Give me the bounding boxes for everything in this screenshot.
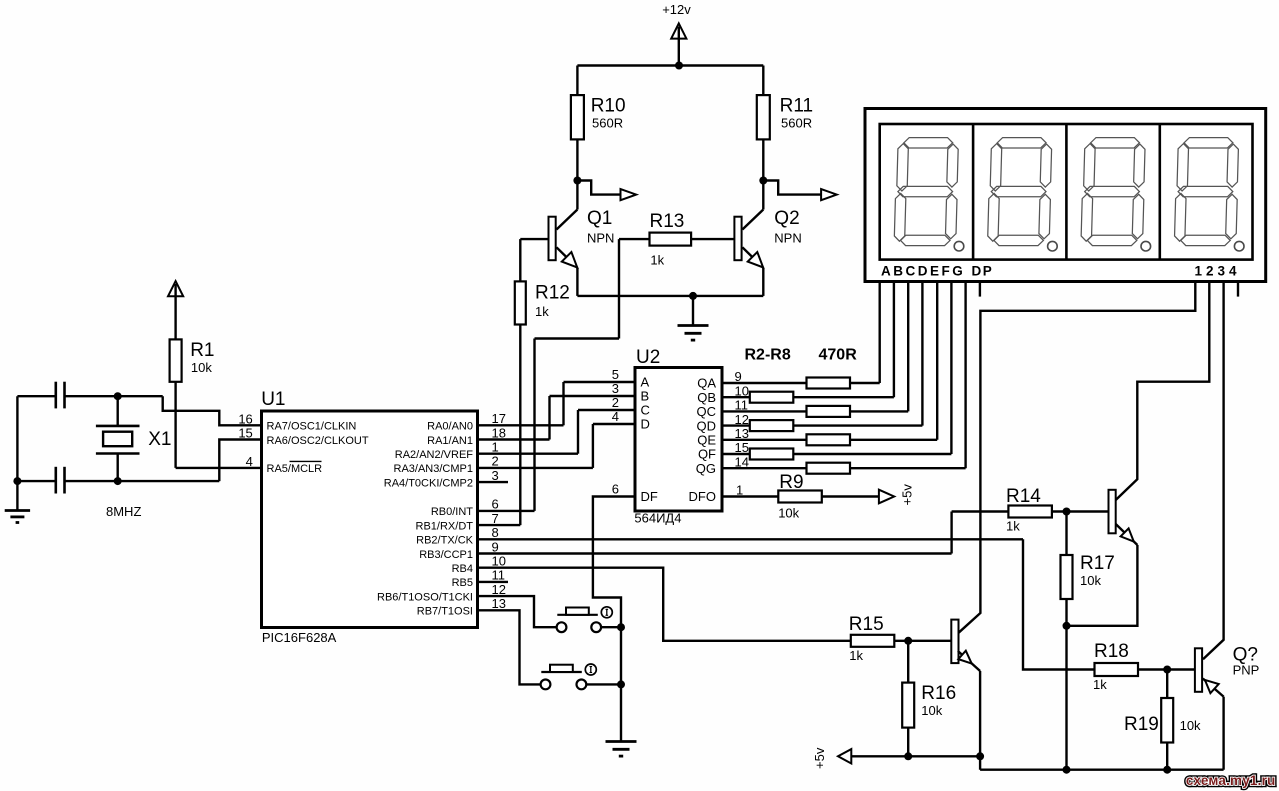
svg-text:12: 12 bbox=[492, 582, 506, 597]
svg-text:1: 1 bbox=[736, 483, 743, 498]
svg-text:8MHZ: 8MHZ bbox=[106, 504, 141, 519]
svg-text:R2-R8: R2-R8 bbox=[745, 347, 791, 364]
svg-text:R14: R14 bbox=[1006, 486, 1041, 507]
svg-text:10k: 10k bbox=[1080, 573, 1101, 588]
svg-text:1k: 1k bbox=[849, 648, 863, 663]
svg-text:NPN: NPN bbox=[774, 231, 801, 246]
svg-text:6: 6 bbox=[492, 497, 499, 512]
svg-text:1k: 1k bbox=[650, 253, 664, 268]
svg-text:15: 15 bbox=[238, 426, 252, 441]
svg-text:9: 9 bbox=[492, 539, 499, 554]
svg-text:4: 4 bbox=[246, 454, 253, 469]
svg-text:R17: R17 bbox=[1080, 553, 1115, 574]
svg-text:R9: R9 bbox=[779, 472, 803, 493]
svg-text:QE: QE bbox=[697, 433, 716, 448]
svg-text:3: 3 bbox=[492, 468, 499, 483]
svg-text:11: 11 bbox=[492, 568, 506, 583]
svg-text:RB3/CCP1: RB3/CCP1 bbox=[419, 549, 473, 561]
svg-text:RA0/AN0: RA0/AN0 bbox=[427, 421, 473, 433]
svg-text:U2: U2 bbox=[636, 347, 660, 368]
svg-text:10k: 10k bbox=[921, 703, 942, 718]
svg-text:RB2/TX/CK: RB2/TX/CK bbox=[416, 535, 474, 547]
svg-text:1: 1 bbox=[492, 440, 499, 455]
svg-text:схема.my1.ru: схема.my1.ru bbox=[1186, 773, 1276, 788]
svg-text:ABCDEFG: ABCDEFG bbox=[881, 264, 965, 279]
svg-text:U1: U1 bbox=[261, 389, 285, 410]
svg-text:RA2/AN2/VREF: RA2/AN2/VREF bbox=[395, 449, 474, 461]
svg-text:10: 10 bbox=[492, 554, 506, 569]
svg-text:10k: 10k bbox=[191, 360, 212, 375]
svg-text:RA7/OSC1/CLKIN: RA7/OSC1/CLKIN bbox=[267, 421, 357, 433]
svg-text:18: 18 bbox=[492, 425, 506, 440]
svg-text:R13: R13 bbox=[650, 211, 685, 232]
svg-text:RA1/AN1: RA1/AN1 bbox=[427, 435, 473, 447]
svg-text:+5v: +5v bbox=[812, 747, 827, 769]
svg-text:R10: R10 bbox=[591, 96, 626, 117]
svg-text:1234: 1234 bbox=[1195, 264, 1241, 279]
svg-text:RA4/T0CKI/CMP2: RA4/T0CKI/CMP2 bbox=[384, 477, 473, 489]
svg-text:PNP: PNP bbox=[1233, 662, 1260, 677]
svg-text:QF: QF bbox=[698, 447, 716, 462]
svg-text:DFO: DFO bbox=[689, 489, 716, 504]
svg-text:PIC16F628A: PIC16F628A bbox=[262, 630, 337, 645]
svg-text:QC: QC bbox=[697, 404, 717, 419]
svg-text:7: 7 bbox=[492, 511, 499, 526]
svg-text:X1: X1 bbox=[148, 429, 171, 450]
svg-text:4: 4 bbox=[612, 409, 619, 424]
svg-text:560R: 560R bbox=[592, 115, 623, 130]
svg-text:5: 5 bbox=[612, 367, 619, 382]
svg-text:+12v: +12v bbox=[662, 2, 691, 17]
svg-text:A: A bbox=[641, 375, 650, 390]
svg-text:2: 2 bbox=[492, 454, 499, 469]
svg-text:RB1/RX/DT: RB1/RX/DT bbox=[416, 520, 474, 532]
svg-text:R18: R18 bbox=[1094, 641, 1129, 662]
svg-text:RB4: RB4 bbox=[452, 563, 473, 575]
svg-text:1k: 1k bbox=[1093, 677, 1107, 692]
svg-text:B: B bbox=[641, 389, 650, 404]
svg-text:RB0/INT: RB0/INT bbox=[431, 506, 473, 518]
svg-text:2: 2 bbox=[612, 395, 619, 410]
svg-text:QG: QG bbox=[696, 461, 716, 476]
svg-text:10k: 10k bbox=[778, 506, 799, 521]
svg-text:6: 6 bbox=[612, 482, 619, 497]
svg-text:470R: 470R bbox=[819, 347, 858, 364]
svg-text:QA: QA bbox=[697, 376, 716, 391]
svg-text:1k: 1k bbox=[535, 304, 549, 319]
svg-text:Q2: Q2 bbox=[774, 208, 799, 229]
svg-text:8: 8 bbox=[492, 525, 499, 540]
svg-text:QD: QD bbox=[697, 418, 717, 433]
svg-text:RB7/T1OSI: RB7/T1OSI bbox=[417, 606, 473, 618]
svg-text:R11: R11 bbox=[780, 96, 813, 117]
svg-text:3: 3 bbox=[612, 381, 619, 396]
svg-text:16: 16 bbox=[238, 411, 252, 426]
svg-text:RB5: RB5 bbox=[452, 577, 473, 589]
svg-text:RA5/MCLR: RA5/MCLR bbox=[267, 463, 323, 475]
svg-text:RB6/T1OSO/T1CKI: RB6/T1OSO/T1CKI bbox=[377, 591, 473, 603]
svg-text:QB: QB bbox=[697, 390, 716, 405]
svg-text:560R: 560R bbox=[781, 115, 812, 130]
svg-text:13: 13 bbox=[492, 596, 506, 611]
svg-text:564ИД4: 564ИД4 bbox=[634, 510, 681, 525]
svg-text:RA3/AN3/CMP1: RA3/AN3/CMP1 bbox=[394, 463, 473, 475]
svg-text:R1: R1 bbox=[190, 340, 214, 361]
svg-text:17: 17 bbox=[492, 411, 506, 426]
svg-text:R16: R16 bbox=[921, 683, 956, 704]
svg-text:1k: 1k bbox=[1006, 519, 1020, 534]
svg-text:Q1: Q1 bbox=[587, 208, 612, 229]
svg-text:DF: DF bbox=[641, 489, 658, 504]
svg-text:C: C bbox=[641, 403, 650, 418]
svg-text:+5v: +5v bbox=[900, 484, 915, 506]
svg-text:NPN: NPN bbox=[587, 231, 614, 246]
svg-text:R19: R19 bbox=[1124, 714, 1159, 735]
svg-text:RA6/OSC2/CLKOUT: RA6/OSC2/CLKOUT bbox=[267, 435, 369, 447]
svg-text:10k: 10k bbox=[1180, 718, 1201, 733]
svg-text:D: D bbox=[641, 417, 650, 432]
svg-text:R15: R15 bbox=[849, 614, 884, 635]
svg-text:DP: DP bbox=[972, 264, 994, 279]
svg-text:R12: R12 bbox=[535, 283, 570, 304]
